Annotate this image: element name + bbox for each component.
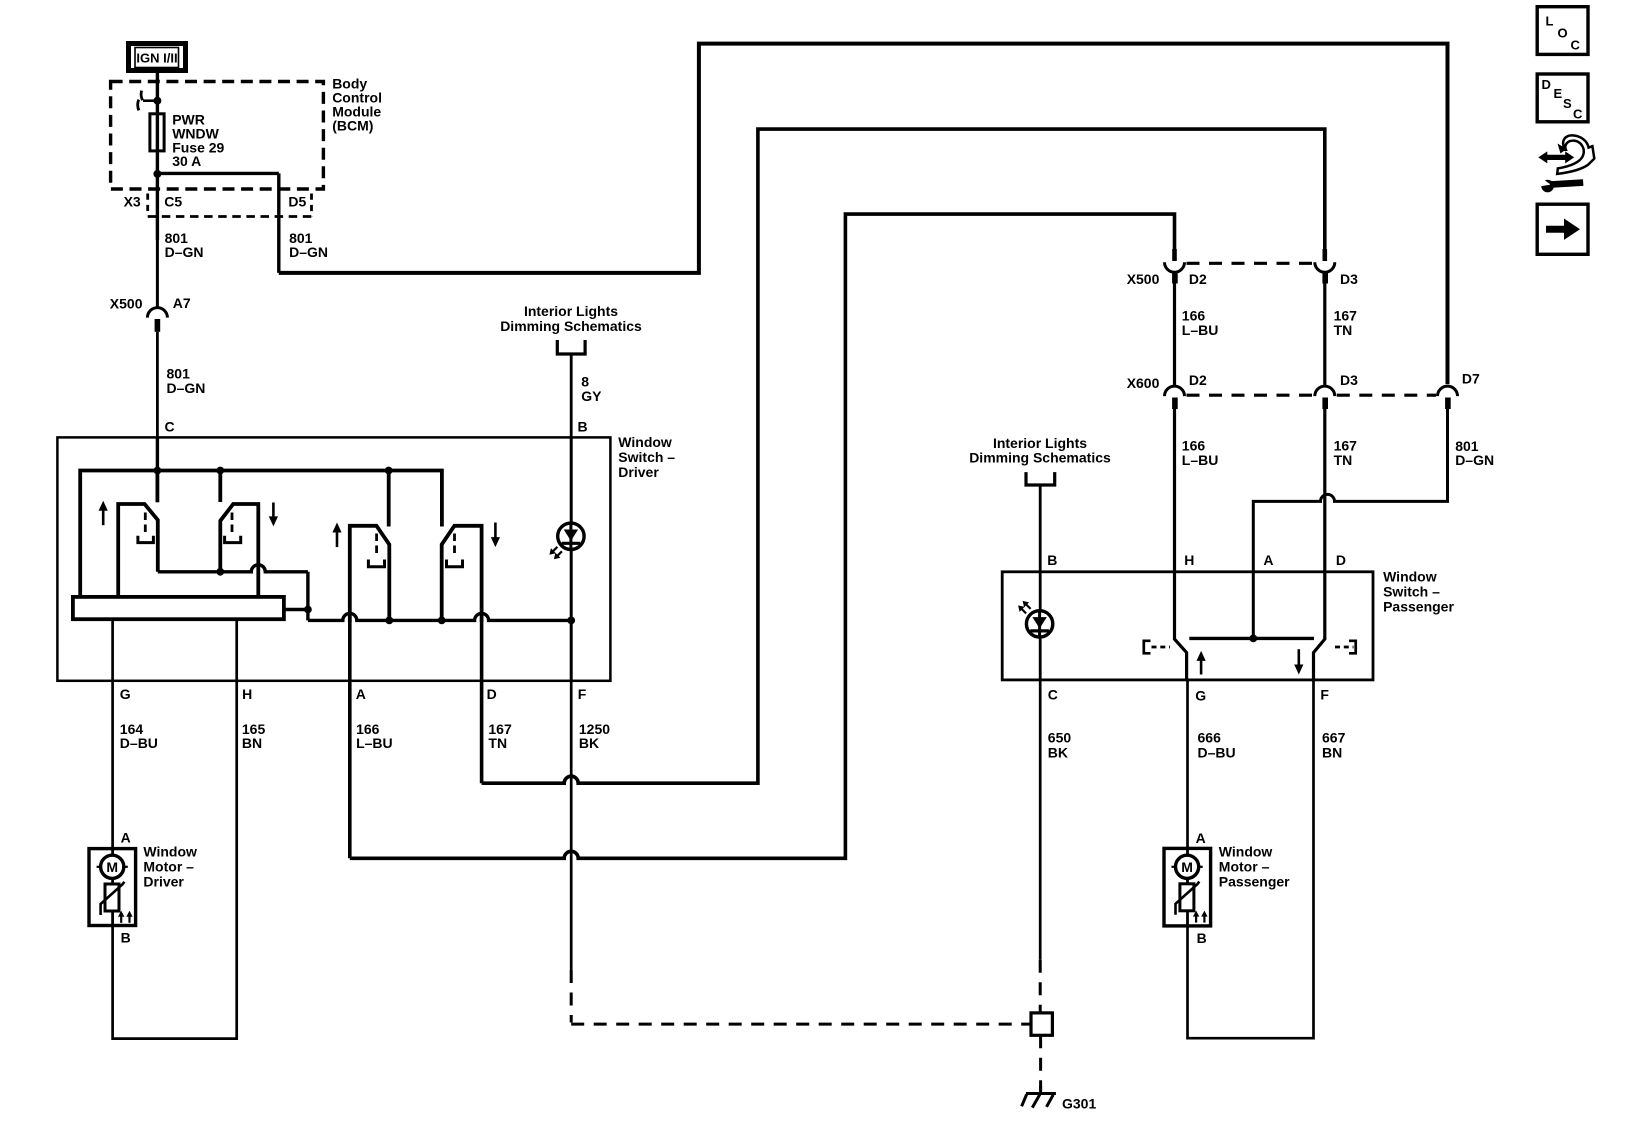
- svg-text:BK: BK: [1048, 745, 1068, 761]
- icon box forward arrow: [1537, 204, 1588, 254]
- wire 801 D-GN from D5 to top right: [279, 44, 1448, 385]
- svg-text:Switch –: Switch –: [618, 449, 675, 465]
- svg-text:Passenger: Passenger: [1383, 599, 1454, 615]
- svg-text:M: M: [106, 859, 118, 875]
- svg-text:BK: BK: [579, 735, 599, 751]
- internal-circuit pigtail symbol: [143, 99, 157, 102]
- component box Window Switch - Driver: [57, 437, 610, 680]
- junction dot at pigtail: [153, 97, 161, 105]
- svg-text:Window: Window: [143, 844, 197, 860]
- off-page bracket (passenger dimming): [1026, 472, 1055, 485]
- switch contact feed 1: [155, 471, 159, 503]
- svg-text:166: 166: [1182, 308, 1206, 324]
- splice block: [1031, 1013, 1052, 1035]
- junction dot at bus tab: [304, 606, 312, 614]
- svg-text:H: H: [242, 686, 252, 702]
- svg-text:A7: A7: [173, 295, 191, 311]
- wire 167 TN X500 to X600: [1323, 284, 1326, 386]
- wire sw1-sw2 common with hop: [158, 565, 308, 572]
- arrow down (switch 2): [272, 503, 275, 519]
- switch blade 1 (window up): [118, 504, 158, 597]
- switch blade 3 (window up, A): [350, 526, 390, 622]
- module box Body Control Module (BCM) dashed: [111, 82, 324, 190]
- component window motor - driver: [89, 849, 136, 926]
- junction dot below fuse: [153, 170, 161, 178]
- wire 1250 BK dashed to splice: [570, 970, 573, 1023]
- svg-text:IGN I/II: IGN I/II: [136, 50, 177, 65]
- ground G301: [1039, 1086, 1042, 1092]
- svg-text:F: F: [578, 686, 587, 702]
- svg-text:TN: TN: [1334, 322, 1353, 338]
- switch blade D-F (passenger down): [1314, 572, 1325, 680]
- svg-text:D: D: [1336, 552, 1346, 568]
- icon box DESC: [1537, 74, 1588, 122]
- inline connector X600 D7: [1438, 386, 1458, 396]
- inline connector X500 D2: [1172, 249, 1177, 261]
- svg-text:B: B: [121, 929, 131, 945]
- svg-text:D–GN: D–GN: [289, 244, 328, 260]
- wire 166 L-BU route (A to X500 D2): [350, 214, 1175, 858]
- svg-text:G: G: [120, 686, 131, 702]
- svg-text:Dimming Schematics: Dimming Schematics: [969, 449, 1111, 465]
- wire 801 D-GN to driver switch C: [156, 332, 159, 438]
- svg-text:M: M: [1181, 859, 1193, 875]
- svg-text:8: 8: [581, 374, 589, 390]
- wire 1250 BK F solid segment: [570, 681, 573, 970]
- svg-text:667: 667: [1322, 730, 1346, 746]
- switch blade H-G (passenger up): [1175, 572, 1187, 680]
- svg-text:167: 167: [1334, 308, 1358, 324]
- svg-text:A: A: [1263, 552, 1273, 568]
- wire 801 D-GN D7 to passenger A: [1253, 409, 1447, 638]
- inline connector X600 D3: [1315, 386, 1335, 396]
- svg-text:C: C: [165, 418, 175, 434]
- wire 650 BK dashed to splice: [1039, 960, 1042, 1013]
- arrow up (switch 1): [102, 509, 105, 526]
- svg-text:Switch –: Switch –: [1383, 583, 1440, 599]
- svg-text:Passenger: Passenger: [1219, 874, 1290, 890]
- svg-text:Driver: Driver: [143, 874, 184, 890]
- wire 8 GY to driver switch B: [570, 354, 573, 437]
- junction dot rail at sw2 feed: [216, 467, 224, 475]
- supply rail in driver switch: [80, 471, 442, 597]
- junction dot rail at sw3 feed: [385, 467, 393, 475]
- wire 164 D-BU G to motor: [111, 619, 114, 848]
- wire 165 BN motor return: [113, 619, 237, 1038]
- LED illumination (passenger switch): [1026, 611, 1052, 637]
- switch blade 2 (window down): [220, 504, 258, 597]
- switch 1 detent: [144, 513, 147, 536]
- wire 167 TN route (D to X500 D3): [482, 129, 1325, 783]
- svg-text:F: F: [1320, 686, 1329, 702]
- component box Window Switch - Passenger: [1002, 572, 1373, 680]
- svg-text:Driver: Driver: [618, 464, 659, 480]
- svg-text:D: D: [1542, 77, 1551, 92]
- svg-text:D–GN: D–GN: [1455, 452, 1494, 468]
- svg-text:GY: GY: [581, 388, 602, 404]
- switch 2 detent: [231, 513, 234, 536]
- wire to passenger switch B: [1039, 485, 1042, 572]
- svg-text:D–GN: D–GN: [167, 380, 206, 396]
- svg-text:Motor –: Motor –: [143, 859, 194, 875]
- arrow up (passenger switch): [1200, 659, 1203, 675]
- svg-text:650: 650: [1048, 730, 1072, 746]
- svg-text:Window: Window: [618, 434, 672, 450]
- svg-text:X500: X500: [1127, 271, 1160, 287]
- junction dot sw3 on lower common: [385, 617, 393, 625]
- wire lower common with hops: [308, 613, 571, 620]
- latch bracket right dashed: [1349, 641, 1356, 654]
- wire IGN to fuse: [156, 73, 159, 114]
- svg-text:C: C: [1573, 107, 1583, 122]
- svg-text:(BCM): (BCM): [332, 118, 373, 134]
- wire 667 BN motor return: [1188, 680, 1314, 1038]
- junction dot LED wire on lower common: [567, 617, 575, 625]
- svg-text:X600: X600: [1127, 375, 1160, 391]
- svg-text:B: B: [1047, 552, 1057, 568]
- svg-text:B: B: [578, 418, 588, 434]
- inline connector X500 A7: [147, 308, 167, 318]
- svg-text:C5: C5: [164, 194, 182, 210]
- arrow up (switch 3): [336, 531, 339, 548]
- junction dot A on common bar: [1249, 635, 1257, 643]
- bus bar (driver switch common): [73, 597, 284, 619]
- svg-text:A: A: [121, 829, 131, 845]
- off-page bracket (driver dimming): [557, 340, 585, 354]
- junction dot sw4 on lower common: [438, 617, 446, 625]
- svg-text:X500: X500: [110, 295, 143, 311]
- power feed tag IGN I/II: [129, 44, 186, 71]
- wire branch to D5: [157, 172, 278, 175]
- svg-text:B: B: [1197, 930, 1207, 946]
- switch contact feed 2: [218, 471, 222, 503]
- connector strip X3 dashed: [146, 194, 149, 212]
- wire dashed splice to ground: [1039, 1035, 1042, 1090]
- fuse F29 PWR WNDW 30A: [156, 114, 159, 151]
- svg-text:L–BU: L–BU: [1182, 452, 1219, 468]
- svg-text:D3: D3: [1340, 372, 1358, 388]
- switch common bar (passenger): [1189, 637, 1314, 640]
- svg-text:D7: D7: [1462, 370, 1480, 386]
- svg-text:C: C: [1048, 687, 1058, 703]
- switch contact feed 3: [387, 471, 391, 527]
- svg-text:D2: D2: [1189, 372, 1207, 388]
- svg-text:L–BU: L–BU: [1182, 322, 1219, 338]
- inline connector X600 D2: [1165, 386, 1185, 396]
- latch bracket left dashed: [1144, 641, 1151, 654]
- wire 166 L-BU X500 to X600: [1173, 284, 1176, 386]
- arrow down (passenger switch): [1298, 649, 1301, 666]
- wire fuse to X3 C5: [156, 151, 159, 240]
- svg-text:E: E: [1554, 86, 1563, 101]
- switch 3 detent: [375, 534, 378, 558]
- svg-text:666: 666: [1198, 730, 1222, 746]
- svg-text:D: D: [487, 686, 497, 702]
- svg-text:H: H: [1184, 552, 1194, 568]
- wire common down to bus tab: [306, 572, 309, 621]
- LED illumination (driver switch): [558, 523, 584, 549]
- svg-text:TN: TN: [1334, 452, 1353, 468]
- svg-text:BN: BN: [1322, 745, 1342, 761]
- icon box LOC: [1537, 7, 1588, 55]
- svg-text:Dimming Schematics: Dimming Schematics: [500, 318, 642, 334]
- wire 167 TN to passenger D: [1323, 409, 1326, 572]
- switch blade 4 (window down, D): [442, 526, 482, 622]
- component window motor - passenger: [1164, 848, 1211, 926]
- svg-text:A: A: [1196, 830, 1206, 846]
- svg-text:O: O: [1558, 26, 1568, 41]
- svg-text:D–GN: D–GN: [165, 244, 204, 260]
- connector X600 dashed line: [1187, 394, 1314, 397]
- arrow down (switch 4): [494, 523, 497, 540]
- svg-text:G: G: [1195, 687, 1206, 703]
- svg-text:Window: Window: [1383, 568, 1437, 584]
- wire C into rail: [156, 437, 159, 470]
- wire B-F through LED: [570, 437, 573, 680]
- connector X500 dashed line: [1187, 262, 1314, 265]
- svg-text:Motor –: Motor –: [1219, 859, 1270, 875]
- svg-text:D3: D3: [1340, 271, 1358, 287]
- svg-text:D–BU: D–BU: [120, 735, 158, 751]
- svg-text:L–BU: L–BU: [356, 735, 393, 751]
- junction dot rail at C: [154, 467, 162, 475]
- wire 650 BK C solid segment: [1039, 680, 1042, 960]
- svg-text:TN: TN: [488, 735, 507, 751]
- wire 166 L-BU to passenger H: [1173, 409, 1176, 572]
- svg-text:C: C: [1571, 38, 1581, 53]
- wire fuse output down to X500 A7: [156, 240, 159, 309]
- svg-text:Interior Lights: Interior Lights: [524, 303, 618, 319]
- svg-text:D–BU: D–BU: [1198, 745, 1236, 761]
- svg-text:BN: BN: [242, 735, 262, 751]
- svg-text:30 A: 30 A: [172, 153, 201, 169]
- wire B through LED (passenger): [1039, 572, 1042, 680]
- wire 666 D-BU G to passenger motor: [1186, 680, 1189, 849]
- bus bar output tab: [284, 608, 308, 611]
- svg-text:X3: X3: [124, 193, 141, 209]
- inline connector X500 D3: [1323, 249, 1328, 261]
- svg-text:L: L: [1546, 14, 1554, 29]
- junction dot sw2 blade on common: [216, 568, 224, 576]
- svg-text:Window: Window: [1219, 844, 1273, 860]
- svg-text:G301: G301: [1062, 1095, 1096, 1111]
- svg-text:A: A: [356, 686, 366, 702]
- svg-text:D5: D5: [288, 193, 306, 209]
- svg-text:S: S: [1563, 96, 1572, 111]
- icon schematic tools: [1547, 155, 1567, 160]
- switch 4 detent: [453, 534, 456, 558]
- svg-text:D2: D2: [1189, 271, 1207, 287]
